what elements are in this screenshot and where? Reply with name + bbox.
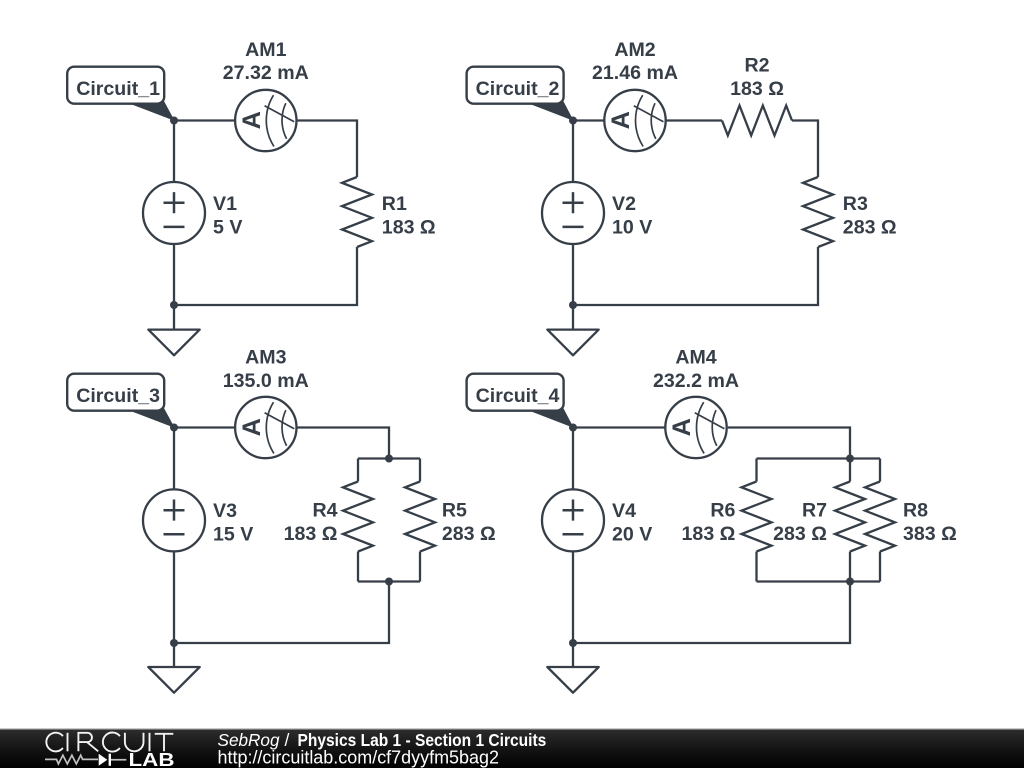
resistor R2 — [722, 106, 792, 136]
net label flag Circuit_2 — [467, 67, 574, 121]
svg-text:R6: R6 — [710, 499, 735, 521]
svg-text:V3: V3 — [213, 500, 237, 522]
svg-text:V1: V1 — [213, 193, 237, 215]
svg-text:AM2: AM2 — [614, 39, 655, 61]
node C3 parallel top node — [385, 455, 393, 463]
svg-text:183 Ω: 183 Ω — [382, 217, 436, 239]
svg-text:AM3: AM3 — [245, 347, 286, 369]
node C2 top node — [569, 117, 577, 125]
svg-text:232.2 mA: 232.2 mA — [653, 370, 739, 392]
wire C3 AM3 to parallel top — [297, 428, 390, 459]
voltage source V3 — [143, 489, 205, 551]
svg-text:21.46 mA: 21.46 mA — [592, 62, 678, 84]
node C1 bottom node — [170, 301, 178, 309]
node C3 top node — [170, 424, 178, 432]
ground GND4 — [547, 667, 598, 693]
wire C4 R6 stubs — [755, 459, 757, 582]
wire C4 parallel to bottom rail — [573, 582, 850, 644]
wire C2 R3 bottom to bottom rail — [573, 247, 818, 305]
svg-text:183 Ω: 183 Ω — [682, 523, 736, 545]
svg-text:V4: V4 — [612, 500, 636, 522]
ground GND2 — [547, 330, 598, 356]
resistor R7 — [835, 482, 865, 552]
wire C4 parallel bottom bar — [757, 580, 881, 582]
wire C4 V4 bottom to bottom rail — [572, 551, 574, 643]
svg-text:Circuit_1: Circuit_1 — [76, 78, 160, 100]
ammeter AM4 — [665, 397, 726, 458]
svg-text:AM1: AM1 — [245, 39, 286, 61]
resistor R3 — [803, 177, 833, 247]
wire C1 node to V1 top — [173, 121, 175, 183]
ground GND1 — [148, 330, 199, 356]
net label flag Circuit_3 — [67, 374, 175, 428]
wire C3 parallel top bar — [358, 457, 420, 459]
wire C2 bottom rail to ground — [572, 305, 574, 330]
svg-text:AM4: AM4 — [675, 347, 716, 369]
node C4 top node — [569, 424, 577, 432]
node C4 parallel bottom node — [846, 578, 854, 586]
svg-text:R1: R1 — [382, 193, 407, 215]
ammeter AM2 — [604, 90, 665, 151]
wire C4 parallel top bar — [757, 457, 881, 459]
svg-text:135.0 mA: 135.0 mA — [223, 370, 309, 392]
resistor R6 — [742, 482, 772, 552]
svg-text:5 V: 5 V — [213, 217, 242, 239]
wire C1 R1 bottom to bottom rail — [174, 247, 357, 305]
wire C3 R5 stubs — [419, 459, 421, 582]
wire C2 R2 to R3 top — [792, 121, 818, 178]
node C4 bottom node — [569, 639, 577, 647]
svg-text:183 Ω: 183 Ω — [730, 78, 784, 100]
svg-text:183 Ω: 183 Ω — [284, 523, 338, 545]
ammeter AM3 — [235, 397, 296, 458]
logo word CIRCUIT — [46, 732, 173, 751]
svg-text:A: A — [238, 111, 266, 129]
wire C3 V3 bottom to bottom rail — [173, 551, 175, 643]
logo squiggle wire with resistor and diode — [45, 755, 98, 764]
wire C4 bottom rail to ground — [572, 643, 574, 667]
svg-text:V2: V2 — [612, 193, 636, 215]
svg-text:R4: R4 — [312, 499, 337, 521]
wire C2 node to AM2 — [573, 119, 604, 121]
svg-text:20 V: 20 V — [612, 524, 652, 546]
svg-text:283 Ω: 283 Ω — [843, 217, 897, 239]
resistor R4 — [343, 482, 373, 552]
logo diode — [99, 754, 108, 766]
wire C1 AM1 to R1 top — [297, 121, 358, 178]
svg-text:R8: R8 — [903, 499, 928, 521]
net label flag Circuit_1 — [67, 67, 175, 121]
svg-text:Circuit_3: Circuit_3 — [76, 385, 160, 407]
wire C4 AM4 to parallel top — [728, 428, 850, 459]
wire C4 node to AM4 — [573, 426, 666, 428]
svg-text:283 Ω: 283 Ω — [773, 523, 827, 545]
svg-text:27.32 mA: 27.32 mA — [223, 62, 309, 84]
svg-text:R2: R2 — [744, 54, 769, 76]
node C4 parallel top node — [846, 455, 854, 463]
svg-text:http://circuitlab.com/cf7dyyfm: http://circuitlab.com/cf7dyyfm5bag2 — [218, 748, 500, 768]
resistor R8 — [865, 482, 895, 552]
wire C1 node to AM1 — [174, 119, 235, 121]
svg-text:Circuit_2: Circuit_2 — [476, 78, 560, 100]
wire C4 node to V4 top — [572, 428, 574, 490]
wire C3 node to AM3 — [174, 426, 235, 428]
svg-text:LAB: LAB — [129, 750, 175, 768]
svg-text:R5: R5 — [442, 499, 467, 521]
wire C1 bottom rail to ground — [173, 305, 175, 330]
svg-text:A: A — [668, 418, 696, 436]
voltage source V4 — [542, 489, 604, 551]
node C1 top node — [170, 117, 178, 125]
resistor R1 — [342, 177, 372, 247]
node C3 bottom node — [170, 639, 178, 647]
node C3 parallel bottom node — [385, 578, 393, 586]
svg-text:A: A — [607, 111, 635, 129]
svg-text:R7: R7 — [802, 499, 827, 521]
node C2 bottom node — [569, 301, 577, 309]
footer bar top highlight line — [0, 728, 1024, 730]
svg-text:R3: R3 — [843, 193, 868, 215]
wire C3 R4 stubs — [357, 459, 359, 582]
wire C2 node to V2 top — [572, 121, 574, 183]
ammeter AM1 — [235, 90, 296, 151]
ground GND3 — [148, 667, 199, 693]
wire C2 V2 bottom to bottom rail — [572, 244, 574, 305]
wire C1 V1 bottom to bottom rail — [173, 244, 175, 305]
wire C3 parallel bottom bar — [358, 580, 420, 582]
svg-text:10 V: 10 V — [612, 217, 652, 239]
svg-text:383 Ω: 383 Ω — [903, 523, 957, 545]
svg-text:15 V: 15 V — [213, 524, 253, 546]
voltage source V1 — [143, 182, 205, 244]
net label flag Circuit_4 — [467, 374, 574, 428]
svg-text:Circuit_4: Circuit_4 — [476, 385, 560, 407]
wire C4 R7 stubs — [849, 459, 851, 582]
svg-text:A: A — [238, 418, 266, 436]
voltage source V2 — [542, 182, 604, 244]
svg-text:283 Ω: 283 Ω — [442, 523, 496, 545]
wire C3 node to V3 top — [173, 428, 175, 490]
resistor R5 — [405, 482, 435, 552]
wire C3 parallel to bottom rail — [174, 582, 389, 644]
wire C4 R8 stubs — [879, 459, 881, 582]
wire C3 bottom rail to ground — [173, 643, 175, 667]
wire C2 AM2 to R2 — [666, 119, 722, 121]
